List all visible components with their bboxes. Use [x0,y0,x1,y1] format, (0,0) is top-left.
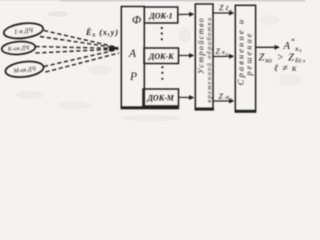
svg-text:Ėх (х,у): Ėх (х,у) [85,27,119,39]
svg-text:ДОК-К: ДОК-К [148,52,174,61]
svg-text:Р: Р [129,71,137,83]
svg-text:ДОК-М: ДОК-М [146,94,174,103]
svg-text:решение: решение [245,31,254,76]
svg-text:ДОК-1: ДОК-1 [148,12,172,21]
svg-text:ℓ≠к: ℓ≠к [274,64,301,74]
svg-text:Устройство: Устройство [197,17,206,74]
svg-text:А: А [128,48,137,60]
svg-text:временной обработки: временной обработки [206,16,213,102]
svg-text:Ф: Ф [132,15,141,27]
